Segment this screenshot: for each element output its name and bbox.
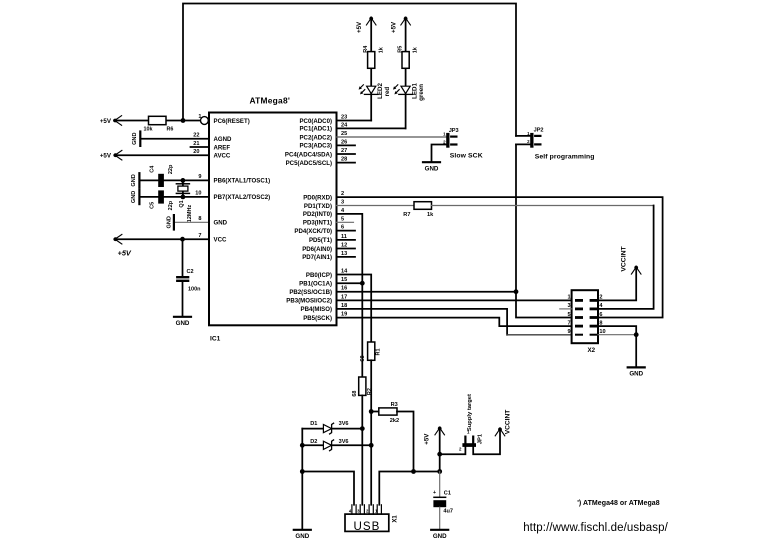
svg-text:GND: GND xyxy=(131,191,137,203)
svg-text:GND: GND xyxy=(214,220,228,227)
svg-text:19: 19 xyxy=(341,312,347,318)
wire PB3 pin 17 MOSI to X2 pin 1 xyxy=(337,299,572,301)
wire PC3 pin 26 stub xyxy=(337,144,356,146)
svg-text:R6: R6 xyxy=(167,127,174,133)
wire JP3 pin 2 to ground xyxy=(432,145,447,162)
ground for C5 (rotated) xyxy=(138,190,140,204)
svg-text:C5: C5 xyxy=(150,202,156,209)
supply +5V arrow (USB power) xyxy=(438,427,442,431)
zener diode D2 3V6 on D- xyxy=(302,444,323,446)
svg-text:9: 9 xyxy=(567,329,570,335)
junction node JP1 tap xyxy=(437,452,442,457)
svg-text:PC6(RESET): PC6(RESET) xyxy=(214,118,250,125)
svg-text:red: red xyxy=(384,87,391,97)
svg-text:4u7: 4u7 xyxy=(443,509,453,515)
junction node D1/D+ line xyxy=(360,426,365,431)
svg-text:7: 7 xyxy=(567,320,570,326)
svg-text:21: 21 xyxy=(193,141,199,147)
svg-text:D1: D1 xyxy=(310,421,317,427)
wire PC2 pin 25 to JP3 pin 1 xyxy=(337,136,447,138)
svg-text:+5V: +5V xyxy=(424,433,431,445)
junction node RESET at top-loop tap xyxy=(181,118,186,123)
svg-text:GND: GND xyxy=(176,320,190,327)
svg-text:+5V: +5V xyxy=(100,153,112,160)
wire LED1 chain vertical xyxy=(405,17,407,128)
svg-text:10: 10 xyxy=(195,191,201,197)
svg-text:ATMega8': ATMega8' xyxy=(250,95,291,105)
svg-text:17: 17 xyxy=(341,294,347,300)
svg-text:Q1: Q1 xyxy=(179,200,185,207)
wire LED2 chain vertical xyxy=(370,17,372,120)
svg-text:PB3(MOSI/OC2): PB3(MOSI/OC2) xyxy=(286,298,332,305)
svg-text:3V6: 3V6 xyxy=(339,439,349,445)
svg-text:http://www.fischl.de/usbasp/: http://www.fischl.de/usbasp/ xyxy=(523,522,668,534)
wire D- to R3 xyxy=(371,411,379,413)
wire zener ground drop xyxy=(301,429,303,530)
supply +5V arrow (AVCC row) xyxy=(114,153,118,157)
wire X2 pin 10 to ground xyxy=(598,334,636,336)
supply VCCINT arrow at X2 pin 2 xyxy=(634,266,638,270)
svg-text:JP2: JP2 xyxy=(534,128,544,134)
svg-text:PB6(XTAL1/TOSC1): PB6(XTAL1/TOSC1) xyxy=(214,178,271,185)
svg-text:PD6(AIN0): PD6(AIN0) xyxy=(302,246,332,253)
svg-text:GND: GND xyxy=(629,371,643,378)
svg-text:AVCC: AVCC xyxy=(214,153,231,160)
svg-text:PC4(ADC4/SDA): PC4(ADC4/SDA) xyxy=(285,151,332,158)
svg-text:68: 68 xyxy=(360,355,366,361)
resistor R3 2k2 (D- pull-up) xyxy=(379,408,397,415)
wire D+ vertical down to R2 xyxy=(361,283,363,377)
svg-text:PB1(OC1A): PB1(OC1A) xyxy=(299,281,332,288)
svg-text:16: 16 xyxy=(341,286,347,292)
wire PD0 pin 2 to X2 pin 6 xyxy=(337,197,663,317)
wire PC5 pin 28 stub xyxy=(337,162,356,164)
junction node PB2/JP2 xyxy=(514,289,519,294)
svg-text:GND: GND xyxy=(131,174,137,186)
svg-text:PD1(TXD): PD1(TXD) xyxy=(304,203,332,210)
svg-text:6: 6 xyxy=(599,312,602,318)
wire X2 pin 3 stub xyxy=(560,308,572,310)
junction node D2/D- line xyxy=(369,443,374,448)
svg-text:IC1: IC1 xyxy=(210,335,221,342)
connector X1 USB socket xyxy=(345,514,389,531)
svg-text:PD4(XCK/T0): PD4(XCK/T0) xyxy=(294,228,332,235)
svg-text:100n: 100n xyxy=(188,287,201,293)
svg-text:C4: C4 xyxy=(150,165,156,173)
wire JP2 pin 1 stub from loop xyxy=(516,135,530,137)
svg-text:AREF: AREF xyxy=(214,144,231,151)
ground for pin 8 (rotated) xyxy=(173,215,175,229)
wire PD2 pin 4 to D+ net xyxy=(337,214,363,283)
junction node D+ at PB1/PD2 xyxy=(360,281,365,286)
capacitor C2 100n xyxy=(176,276,189,278)
svg-text:PC2(ADC2): PC2(ADC2) xyxy=(299,134,332,141)
ground below C1 xyxy=(431,529,448,531)
junction node VCC decoupling tap xyxy=(180,237,185,242)
junction node R3/D- tap xyxy=(369,409,374,414)
svg-text:GND: GND xyxy=(132,132,138,144)
ground for C4 (rotated) xyxy=(138,173,140,187)
svg-text:PB4(MISO): PB4(MISO) xyxy=(301,306,333,313)
junction node D2 left on ground drop xyxy=(300,443,305,448)
svg-text:1k: 1k xyxy=(413,46,419,53)
jumper JP2 self programming xyxy=(530,133,533,148)
svg-text:14: 14 xyxy=(341,269,348,275)
svg-text:PD2(INT0): PD2(INT0) xyxy=(303,211,332,218)
wire +5V to VCC pin 7 xyxy=(114,238,209,240)
svg-text:R1: R1 xyxy=(375,348,381,355)
wire +5V bus from USB pin 1 xyxy=(379,472,439,505)
wire PD7 pin 13 stub xyxy=(337,256,356,258)
svg-text:10k: 10k xyxy=(144,127,153,133)
svg-text:PD7(AIN1): PD7(AIN1) xyxy=(302,254,332,261)
svg-text:+5V: +5V xyxy=(356,21,363,33)
wire PD3 pin 5 stub xyxy=(337,221,354,223)
pin 1 inverting bubble at PC6/RESET xyxy=(201,117,209,125)
wire PD6 pin 12 stub xyxy=(337,248,356,250)
wire D+ from R2 down to USB pin 3 xyxy=(361,395,363,504)
wire X2 pin 8 to ground bus xyxy=(598,326,636,335)
svg-text:Supply target: Supply target xyxy=(467,394,473,431)
pin slots on USB connector xyxy=(351,505,353,514)
svg-text:26: 26 xyxy=(341,139,347,145)
svg-text:PD5(T1): PD5(T1) xyxy=(309,237,332,244)
wire ground bus to USB pin 4 xyxy=(302,472,354,505)
svg-text:15: 15 xyxy=(341,277,347,283)
svg-text:12: 12 xyxy=(341,243,347,249)
wire PB5 pin 19 SCK to X2 pin 7 xyxy=(337,318,572,327)
jumper JP1 supply target xyxy=(462,443,476,447)
svg-text:Slow SCK: Slow SCK xyxy=(450,152,483,159)
svg-text:1: 1 xyxy=(198,114,201,120)
wire JP1 pin 2 to VCCINT arrow xyxy=(473,428,500,454)
wire D- from R1 down to USB pin 2 xyxy=(370,360,372,505)
svg-text:11: 11 xyxy=(341,234,347,240)
op-amp IC1 ATMega8 microcontroller body xyxy=(209,113,337,326)
svg-text:2k2: 2k2 xyxy=(390,418,399,424)
supply +5V arrow above R4 xyxy=(369,17,373,21)
svg-text:25: 25 xyxy=(341,131,347,137)
ground below X2 xyxy=(628,366,645,368)
svg-text:9: 9 xyxy=(198,174,201,180)
capacitor C5 22p xyxy=(158,190,164,203)
wire PD1 pin 3 through R7 to X2 pin 4 xyxy=(337,205,415,207)
svg-text:13: 13 xyxy=(341,251,347,257)
svg-text:2: 2 xyxy=(341,191,344,197)
connector X2 10-pin ISP header xyxy=(572,290,598,343)
svg-text:3: 3 xyxy=(341,200,344,206)
junction node ground bus left xyxy=(300,469,305,474)
wire C2 to ground xyxy=(182,282,184,316)
wire VCC tap down to C2 xyxy=(182,239,184,276)
svg-text:R4: R4 xyxy=(363,45,369,53)
svg-text:22p: 22p xyxy=(168,200,174,210)
resistor R2 68 (D+ series) xyxy=(359,377,366,395)
svg-text:R7: R7 xyxy=(403,212,410,218)
svg-text:C1: C1 xyxy=(444,491,451,497)
ground for AGND (rotated) xyxy=(139,132,141,146)
svg-text:+5V: +5V xyxy=(118,249,132,258)
svg-text:JP3: JP3 xyxy=(449,128,459,134)
capacitor C4 22p xyxy=(158,174,164,187)
resistor R4 1k xyxy=(368,52,375,69)
svg-text:GND: GND xyxy=(433,533,447,540)
wire down to X2 ground symbol xyxy=(635,335,637,367)
zener diode D1 3V6 on D+ xyxy=(302,428,323,430)
svg-text:PC5(ADC5/SCL): PC5(ADC5/SCL) xyxy=(286,160,332,167)
wire +5V to JP1 pin 1 xyxy=(440,447,466,454)
wire AREF pin 21 stub xyxy=(191,146,210,148)
wire JP2 pin 2 stub to loop xyxy=(516,143,530,145)
ground below zener drop xyxy=(294,529,311,531)
wire PD4 pin 6 stub xyxy=(337,230,356,232)
svg-text:PB7(XTAL2/TOSC2): PB7(XTAL2/TOSC2) xyxy=(214,194,271,201)
svg-text:PC1(ADC1): PC1(ADC1) xyxy=(299,126,332,133)
resistor R1 68 (D- series) xyxy=(368,342,375,360)
svg-text:VCCINT: VCCINT xyxy=(505,410,512,435)
svg-text:3V6: 3V6 xyxy=(339,421,349,427)
svg-text:20: 20 xyxy=(193,149,199,155)
wire C1 to ground xyxy=(439,507,441,529)
svg-text:+: + xyxy=(433,490,436,496)
svg-text:USB: USB xyxy=(353,520,380,533)
svg-text:R5: R5 xyxy=(398,46,404,53)
svg-text:+5V: +5V xyxy=(100,118,112,125)
svg-text:JP1: JP1 xyxy=(478,433,484,444)
wire PC1 pin 24 to LED1 chain xyxy=(337,127,406,129)
ground below C2 xyxy=(174,316,191,318)
svg-text:') ATMega48 or ATMega8: ') ATMega48 or ATMega8 xyxy=(577,500,660,507)
svg-text:22p: 22p xyxy=(168,164,174,174)
wire R7 to X2 pin 4 xyxy=(432,205,654,207)
svg-text:GND: GND xyxy=(295,533,309,540)
wire PB0 pin 14 to D- net xyxy=(337,275,372,343)
wire PB2 pin 16 to self-programming net xyxy=(337,291,517,293)
svg-text:X2: X2 xyxy=(588,347,596,354)
svg-text:28: 28 xyxy=(341,157,347,163)
wire XTAL1 row pin 9 xyxy=(140,179,209,181)
svg-text:PD0(RXD): PD0(RXD) xyxy=(303,194,332,201)
svg-text:VCCINT: VCCINT xyxy=(620,246,627,272)
wire XTAL2 row pin 10 xyxy=(140,196,209,198)
junction node XTAL2 xyxy=(181,195,186,200)
svg-text:5: 5 xyxy=(341,216,344,222)
wire JP2 pin2 down to PB2 node and X2 pin5 xyxy=(516,144,572,317)
wire RESET net: top loop from R6 junction up/right/down to JP2 pin 1 xyxy=(183,4,516,136)
wire +5V to AVCC pin 20 xyxy=(114,154,209,156)
svg-text:1: 1 xyxy=(567,295,570,301)
svg-text:D2: D2 xyxy=(310,439,317,445)
junction node R3 on +5V bus xyxy=(411,469,416,474)
wire X2 pin 2 to VCCINT arrow xyxy=(598,267,636,301)
LED2 red indicator diode xyxy=(367,86,376,93)
svg-text:23: 23 xyxy=(341,115,347,121)
supply +5V arrow above R5 xyxy=(404,17,408,21)
svg-text:X1: X1 xyxy=(393,515,399,523)
resistor R5 1k xyxy=(402,52,409,69)
svg-text:R2: R2 xyxy=(367,388,373,395)
wire PD5 pin 11 stub xyxy=(337,239,356,241)
crystal Q1 12MHz between pins 9 and 10 xyxy=(182,180,184,197)
wire PB4 pin 18 MISO to X2 pin 9 xyxy=(337,309,508,335)
svg-text:7: 7 xyxy=(198,233,201,239)
svg-text:C2: C2 xyxy=(187,269,194,275)
svg-text:+5V: +5V xyxy=(390,21,397,33)
supply +5V arrow (reset row) xyxy=(113,119,117,123)
wire +5V arrow riser xyxy=(439,427,441,471)
svg-text:PB0(ICP): PB0(ICP) xyxy=(306,272,332,279)
wire PC4 pin 27 stub xyxy=(337,153,356,155)
svg-text:GND: GND xyxy=(167,216,173,228)
wire +5V to RESET (pin 1) through R6 xyxy=(114,120,201,122)
LED1 green indicator diode xyxy=(401,86,410,93)
svg-text:22: 22 xyxy=(193,133,199,139)
svg-text:68: 68 xyxy=(352,391,358,397)
svg-text:5: 5 xyxy=(567,312,570,318)
ground below JP3 xyxy=(423,161,440,163)
supply VCCINT arrow at JP1 xyxy=(498,428,502,432)
svg-text:R3: R3 xyxy=(391,402,398,408)
wire GND pin 8 xyxy=(175,221,209,223)
wire PB1 pin 15 to D+ junction xyxy=(337,282,363,284)
svg-text:PC0(ADC0): PC0(ADC0) xyxy=(299,118,332,125)
supply +5V arrow (VCC row) xyxy=(114,237,118,241)
wire PC0 pin 23 to LED2 chain xyxy=(337,120,372,122)
svg-text:1k: 1k xyxy=(378,46,384,53)
svg-text:12MHz: 12MHz xyxy=(187,205,193,223)
svg-text:PD3(INT1): PD3(INT1) xyxy=(303,220,332,227)
junction node XTAL1 xyxy=(181,178,186,183)
resistor R6 10k (reset pull-up) xyxy=(149,116,167,124)
svg-text:1k: 1k xyxy=(427,212,434,218)
svg-text:AGND: AGND xyxy=(214,136,233,143)
svg-text:27: 27 xyxy=(341,148,347,154)
svg-text:Self programming: Self programming xyxy=(535,153,595,160)
svg-text:6: 6 xyxy=(341,225,344,231)
svg-text:10: 10 xyxy=(599,329,605,335)
jumper JP3 slow SCK xyxy=(446,133,449,148)
svg-text:green: green xyxy=(418,84,425,101)
svg-text:24: 24 xyxy=(341,122,348,128)
svg-text:PB5(SCK): PB5(SCK) xyxy=(303,315,332,322)
svg-text:VCC: VCC xyxy=(214,237,227,244)
capacitor C1 4u7 electrolytic xyxy=(439,472,441,498)
svg-text:8: 8 xyxy=(198,216,201,222)
svg-text:3: 3 xyxy=(567,303,570,309)
svg-text:PC3(ADC3): PC3(ADC3) xyxy=(299,143,332,150)
svg-text:GND: GND xyxy=(425,165,439,172)
resistor R7 1k (serial line) xyxy=(414,202,432,210)
junction node C1 on +5V bus xyxy=(437,469,442,474)
svg-text:PB2(SS/OC1B): PB2(SS/OC1B) xyxy=(289,289,332,296)
wire AGND pin 22 to ground xyxy=(141,138,209,140)
wire R3 to +5V bus xyxy=(397,412,414,472)
junction node X2 ground xyxy=(634,332,639,337)
svg-text:18: 18 xyxy=(341,303,347,309)
